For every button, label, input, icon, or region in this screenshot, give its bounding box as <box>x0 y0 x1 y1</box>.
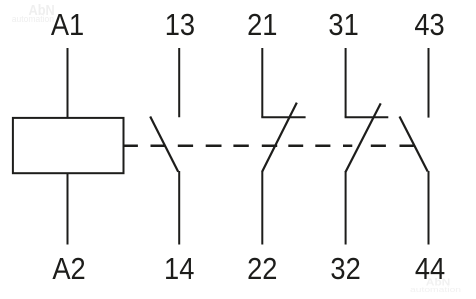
svg-text:21: 21 <box>247 8 277 42</box>
svg-text:32: 32 <box>330 252 360 286</box>
svg-text:14: 14 <box>164 252 194 286</box>
svg-text:A1: A1 <box>51 8 84 42</box>
svg-text:automation: automation <box>410 286 461 294</box>
svg-text:automation: automation <box>12 14 54 24</box>
svg-text:22: 22 <box>247 252 277 286</box>
svg-text:13: 13 <box>165 8 195 42</box>
svg-text:A2: A2 <box>52 252 85 286</box>
svg-text:44: 44 <box>415 252 445 286</box>
svg-text:43: 43 <box>414 8 444 42</box>
svg-text:31: 31 <box>328 8 358 42</box>
